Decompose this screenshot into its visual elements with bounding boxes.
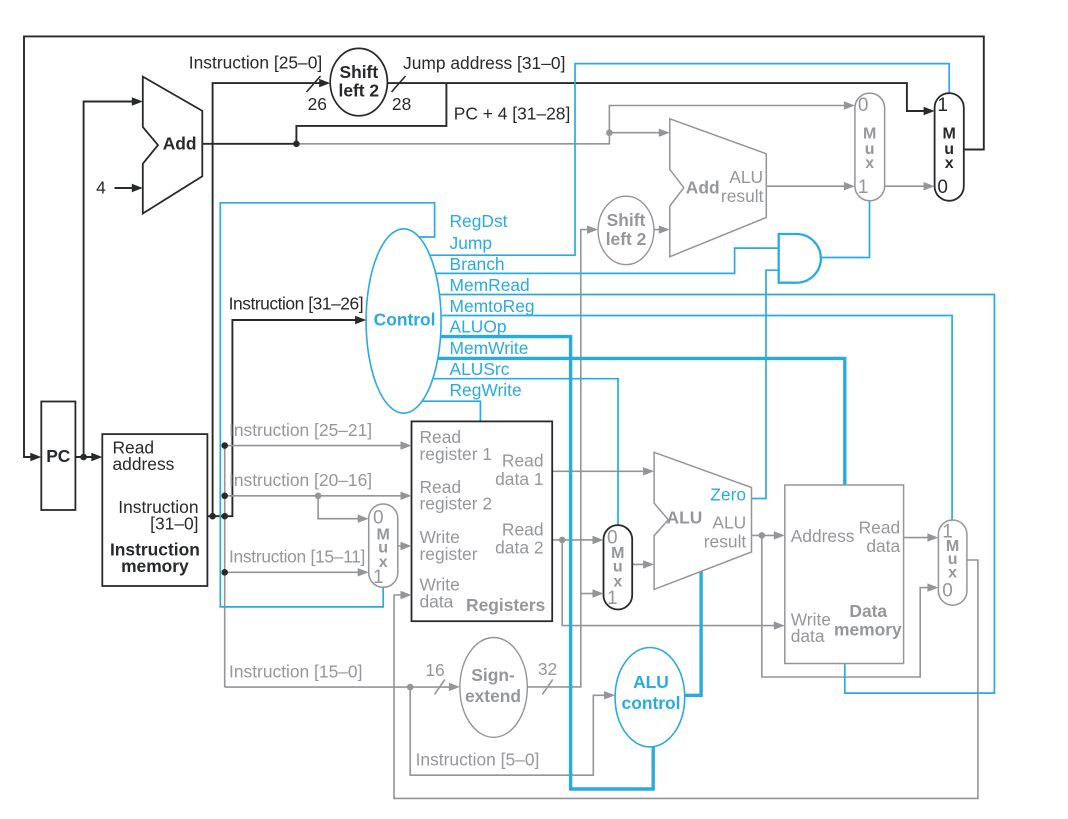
svg-text:memory: memory [121,556,189,576]
svg-text:Shift: Shift [607,210,646,230]
svg-text:data: data [791,626,825,646]
svg-text:Instruction [15–11]: Instruction [15–11] [229,547,365,567]
svg-text:0: 0 [373,508,384,529]
svg-text:MemtoReg: MemtoReg [450,296,535,316]
svg-text:left 2: left 2 [339,81,380,101]
svg-text:[31–0]: [31–0] [150,513,198,533]
svg-text:Branch: Branch [450,254,505,274]
svg-text:1: 1 [373,567,384,588]
svg-text:32: 32 [538,659,557,679]
svg-text:PC: PC [46,446,71,466]
svg-text:Control: Control [374,310,436,330]
svg-text:Shift: Shift [339,62,378,82]
svg-text:Read: Read [859,518,901,538]
svg-text:PC + 4 [31–28]: PC + 4 [31–28] [454,104,571,124]
svg-text:Jump: Jump [450,233,493,253]
svg-text:Instruction [25–0]: Instruction [25–0] [189,53,322,73]
svg-text:result: result [721,186,764,206]
svg-text:Registers: Registers [466,595,545,615]
svg-text:ALU: ALU [712,513,746,533]
svg-text:28: 28 [392,94,411,114]
svg-text:Read: Read [502,451,544,471]
svg-text:x: x [865,155,874,172]
svg-text:left 2: left 2 [606,229,647,249]
svg-text:4: 4 [96,178,106,198]
svg-text:ALUSrc: ALUSrc [450,359,510,379]
svg-text:Sign-: Sign- [471,665,515,685]
svg-text:data 1: data 1 [495,469,543,489]
svg-text:MemRead: MemRead [450,275,530,295]
svg-text:1: 1 [607,588,618,609]
svg-text:result: result [704,532,747,552]
svg-text:x: x [948,565,957,582]
svg-text:Instruction [25–21]: Instruction [25–21] [229,420,372,440]
svg-text:Zero: Zero [710,485,746,505]
svg-text:data: data [420,592,454,612]
svg-text:x: x [945,155,954,172]
svg-text:0: 0 [942,581,953,602]
svg-text:0: 0 [858,95,869,116]
svg-text:Instruction [20–16]: Instruction [20–16] [229,470,372,490]
svg-text:RegWrite: RegWrite [450,380,522,400]
svg-text:ALU: ALU [667,508,703,528]
svg-text:register: register [420,544,478,564]
svg-text:16: 16 [425,660,444,680]
svg-text:ALU: ALU [633,672,669,692]
svg-text:26: 26 [308,94,327,114]
svg-text:Add: Add [686,177,720,197]
svg-text:extend: extend [465,686,521,706]
svg-text:register 2: register 2 [420,493,493,513]
svg-text:Instruction [5–0]: Instruction [5–0] [416,750,540,770]
svg-text:ALU: ALU [729,167,763,187]
svg-text:1: 1 [937,95,948,116]
svg-text:Jump address [31–0]: Jump address [31–0] [403,53,565,73]
svg-text:register 1: register 1 [420,444,493,464]
svg-text:data: data [866,536,900,556]
svg-text:Instruction [31–26]: Instruction [31–26] [229,294,364,314]
svg-text:M: M [943,126,956,143]
svg-text:Add: Add [163,134,197,154]
svg-text:MemWrite: MemWrite [450,338,529,358]
svg-text:memory: memory [834,620,902,640]
svg-text:RegDst: RegDst [450,211,508,231]
svg-text:0: 0 [937,177,948,198]
svg-text:M: M [863,126,876,143]
svg-text:1: 1 [858,177,869,198]
svg-text:address: address [113,454,175,474]
svg-text:Instruction [15–0]: Instruction [15–0] [229,661,362,681]
svg-text:Data: Data [849,601,887,621]
svg-text:data 2: data 2 [495,538,543,558]
svg-text:control: control [622,693,681,713]
svg-text:Address: Address [791,526,855,546]
svg-text:Read: Read [502,519,544,539]
svg-text:ALUOp: ALUOp [450,317,507,337]
